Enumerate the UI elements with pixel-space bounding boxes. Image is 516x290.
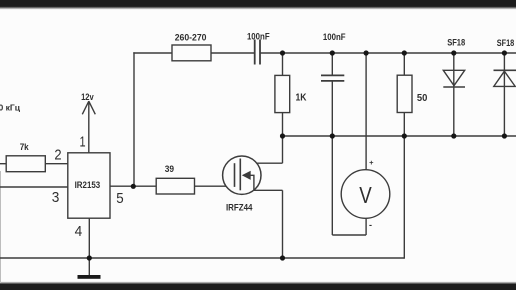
wire source horizontal <box>240 189 283 191</box>
svg-text:3: 3 <box>52 189 60 206</box>
svg-text:100nF: 100nF <box>323 32 346 43</box>
wire voltmeter minus stub <box>365 218 367 235</box>
wire cap C2 bottom to mid node <box>331 81 333 136</box>
resistor R 39 <box>156 178 194 194</box>
wire ground symbol stub <box>88 258 90 275</box>
letterbox bottom bar <box>0 282 516 285</box>
wire pin 1 to 12v <box>88 101 90 153</box>
wire rail to cap C2 top <box>331 53 333 75</box>
wire pin 3 <box>0 186 68 188</box>
resistor R 260-270 <box>172 45 211 61</box>
svg-text:1K: 1K <box>296 93 308 104</box>
svg-text:50: 50 <box>417 93 428 104</box>
wire source to ground rail <box>282 190 284 258</box>
wire left vertical to pin 5 node <box>133 52 135 186</box>
svg-text:-: - <box>369 220 372 230</box>
wire voltmeter minus vertical <box>331 136 333 235</box>
wire 50 bottom to mid node <box>403 113 405 137</box>
wire 7k resistor to pin 2 <box>45 163 68 165</box>
diode D1 SF18 <box>443 70 465 87</box>
svg-text:V: V <box>359 182 372 208</box>
node mid-D1 <box>451 133 456 138</box>
wire top rail segment mid <box>211 52 254 54</box>
resistor R 1K <box>275 75 290 112</box>
svg-text:5: 5 <box>116 190 123 207</box>
wire voltmeter plus <box>365 53 367 170</box>
svg-text:39: 39 <box>165 164 174 175</box>
node mid-1K <box>280 133 285 138</box>
letterbox top bar <box>0 0 516 7</box>
wire drain vertical <box>282 136 284 163</box>
wire rail to 1K top <box>282 53 284 75</box>
node rail-V+ <box>364 50 369 55</box>
resistor R 7k <box>6 156 45 172</box>
svg-text:SF18: SF18 <box>447 38 465 48</box>
wire rail to 50 top <box>403 53 405 75</box>
capacitor C1 100nF plates <box>255 40 260 65</box>
wire 1K bottom to mid node <box>282 113 284 136</box>
wire R39 to gate <box>195 185 235 187</box>
svg-text:260-270: 260-270 <box>175 32 207 42</box>
svg-text:4: 4 <box>75 223 83 240</box>
left edge artifact line <box>0 171 2 283</box>
svg-text:2: 2 <box>54 147 61 164</box>
IC U1 IR2153 box <box>68 153 110 218</box>
svg-text:7k: 7k <box>20 142 30 152</box>
wire pin 5 to resistor R39 <box>110 185 156 187</box>
node mid-50 <box>402 133 407 138</box>
node mid-C2 <box>330 133 335 138</box>
node pin5 <box>131 184 136 189</box>
12v arrow head <box>82 101 95 114</box>
node rail-1K <box>280 50 285 55</box>
wire drain horizontal <box>240 162 283 164</box>
svg-text:12v: 12v <box>81 92 94 102</box>
wire voltmeter minus horizontal <box>332 234 366 236</box>
capacitor C2 100nF plates <box>321 75 344 81</box>
svg-text:100nF: 100nF <box>247 31 270 42</box>
svg-text:IR2153: IR2153 <box>75 180 101 190</box>
node mid-D2 <box>502 133 507 138</box>
voltmeter V1 <box>341 170 390 219</box>
wire pin 2 left stub <box>0 163 6 165</box>
wire pin 4 to ground rail <box>88 218 90 258</box>
svg-text:+: + <box>369 158 374 167</box>
wire top rail segment left <box>133 52 172 54</box>
ground symbol <box>78 275 101 279</box>
node rail-50 <box>402 50 407 55</box>
diode D2 SF18 <box>494 70 516 86</box>
wire through diode D1 column <box>453 53 455 136</box>
resistor R 50 <box>397 75 412 112</box>
node rail-C2 <box>330 50 335 55</box>
wire mid return rail <box>283 135 516 137</box>
wire ground rail <box>0 257 404 259</box>
wire mid node to ground rail corner <box>403 136 405 259</box>
wire top rail segment right <box>261 52 516 54</box>
svg-text:1: 1 <box>79 134 85 151</box>
node ground-pin4 <box>87 255 92 260</box>
wire through diode D2 column <box>503 53 505 136</box>
node ground-source <box>280 255 285 260</box>
transistor Q1 IRFZ44 <box>223 156 261 194</box>
node rail-D1 <box>451 50 456 55</box>
svg-text:IRFZ44: IRFZ44 <box>226 203 253 214</box>
svg-text:0 кГц: 0 кГц <box>0 103 21 113</box>
svg-text:SF18: SF18 <box>497 38 515 48</box>
node rail-D2 <box>502 50 507 55</box>
